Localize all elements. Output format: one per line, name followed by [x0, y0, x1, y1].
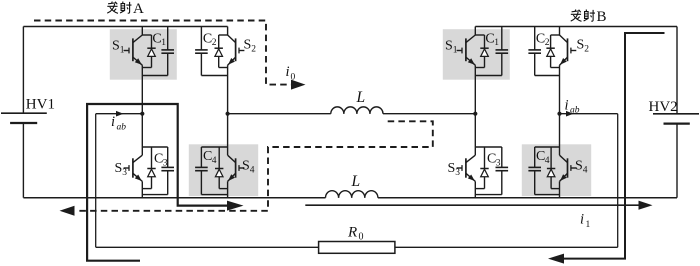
label S2 right: [577, 38, 590, 55]
svg-text:2: 2: [584, 44, 589, 54]
svg-text:3: 3: [455, 168, 460, 178]
svg-text:0: 0: [359, 232, 364, 243]
svg-text:1: 1: [494, 38, 499, 48]
svg-text:S: S: [115, 161, 123, 176]
mid wire left segment: [228, 113, 331, 115]
highlight box S4: [189, 144, 258, 196]
battery HV1: [1, 113, 47, 123]
switch cell S2: [195, 27, 244, 114]
label C1 right: [485, 31, 499, 48]
inductor L lower: [326, 191, 378, 198]
svg-text:S: S: [575, 159, 583, 174]
label i0: [286, 64, 296, 83]
svg-text:3: 3: [496, 158, 501, 168]
node b right bridge: [557, 112, 561, 116]
wire iab right: [560, 113, 618, 115]
switch cell S1 right: [457, 27, 509, 114]
bottom rail left segment: [23, 197, 325, 199]
label 发射A: [107, 1, 144, 17]
resistor R0: [319, 242, 395, 254]
dashed current path middle: [76, 121, 433, 211]
label S4 right: [575, 159, 588, 176]
current loop wire left: [87, 104, 228, 261]
arrow loop right: [227, 201, 244, 211]
arrow iab right: [566, 111, 574, 117]
HV1 positive wire: [22, 27, 24, 114]
label R0: [347, 225, 364, 243]
return wire right: [563, 33, 665, 259]
svg-text:S: S: [577, 38, 585, 53]
label C4 right: [536, 149, 550, 166]
label 发射B: [571, 9, 607, 25]
highlight box S1 right bridge: [443, 29, 510, 79]
svg-text:4: 4: [250, 165, 255, 175]
switch cell S2 right: [528, 27, 576, 114]
arrow i0: [291, 80, 306, 90]
dashed boundary 发射A with current path: [34, 21, 293, 85]
svg-text:S: S: [445, 39, 453, 54]
label C3 right: [487, 152, 501, 169]
label C2 right: [536, 31, 550, 48]
highlight box S4 right bridge: [522, 144, 591, 196]
label S1: [112, 39, 125, 56]
arrow return left: [548, 254, 564, 264]
svg-text:2: 2: [251, 44, 256, 54]
label C3: [154, 152, 168, 169]
switch cell S1: [124, 27, 174, 114]
svg-text:HV1: HV1: [26, 97, 55, 113]
highlight box S1: [110, 29, 177, 79]
svg-text:S: S: [448, 161, 456, 176]
label S2: [244, 38, 257, 55]
svg-text:A: A: [133, 1, 144, 17]
label S1 right: [445, 39, 458, 56]
svg-text:i: i: [286, 64, 290, 80]
svg-text:S: S: [242, 159, 250, 174]
svg-text:4: 4: [212, 156, 217, 166]
svg-text:HV2: HV2: [649, 99, 678, 115]
arrow i1: [639, 201, 653, 210]
svg-text:2: 2: [545, 38, 550, 48]
svg-text:1: 1: [120, 45, 125, 55]
label C1: [152, 31, 166, 48]
label C4: [203, 149, 217, 166]
label S3: [115, 161, 128, 178]
wire right up: [617, 114, 619, 248]
HV2 positive wire: [676, 27, 678, 114]
node a right bridge: [473, 112, 477, 116]
svg-text:S: S: [112, 39, 120, 54]
svg-text:3: 3: [163, 158, 168, 168]
top rail B: [475, 26, 677, 28]
label C2: [203, 31, 217, 48]
svg-text:i: i: [111, 114, 115, 130]
wire iab left: [96, 113, 143, 115]
switch cell S4: [195, 114, 244, 198]
HV1 negative wire: [22, 123, 24, 198]
top rail A: [23, 26, 227, 28]
svg-text:B: B: [597, 9, 607, 25]
node b left bridge: [226, 112, 230, 116]
mid wire right segment: [383, 113, 475, 115]
label i1: [580, 212, 591, 231]
svg-text:1: 1: [453, 45, 458, 55]
wire R0 left: [96, 246, 319, 248]
svg-text:ab: ab: [117, 123, 127, 133]
arrow iab left: [116, 111, 124, 117]
wire i1: [305, 204, 640, 206]
svg-text:R: R: [347, 225, 357, 241]
switch cell S3 right: [457, 114, 509, 198]
svg-text:1: 1: [586, 220, 591, 230]
arrow dashed left: [60, 206, 75, 216]
svg-text:1: 1: [161, 38, 166, 48]
HV2 negative wire: [676, 124, 678, 198]
label iab right: [565, 98, 580, 116]
bottom rail right segment: [378, 197, 677, 199]
svg-text:3: 3: [122, 168, 127, 178]
svg-text:0: 0: [291, 73, 296, 83]
label iab left: [111, 114, 126, 133]
svg-text:L: L: [351, 173, 361, 190]
svg-text:ab: ab: [570, 106, 580, 116]
svg-text:2: 2: [212, 38, 217, 48]
wire left down: [95, 114, 97, 248]
svg-text:i: i: [565, 98, 569, 114]
node a left bridge: [140, 112, 144, 116]
label S3 right: [448, 161, 461, 178]
switch cell S4 right: [528, 114, 576, 198]
svg-text:L: L: [356, 89, 366, 106]
svg-text:4: 4: [545, 156, 550, 166]
svg-text:4: 4: [583, 165, 588, 175]
battery HV2: [653, 114, 699, 124]
inductor L upper: [331, 107, 383, 114]
switch cell S3: [124, 114, 174, 198]
svg-text:i: i: [580, 212, 584, 228]
wire R0 right: [395, 246, 618, 248]
label S4: [242, 159, 255, 176]
svg-text:S: S: [244, 38, 252, 53]
